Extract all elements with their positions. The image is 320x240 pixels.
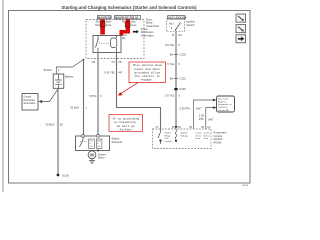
svg-text:99073: 99073 [242, 185, 249, 187]
grommet P100 [174, 88, 178, 91]
svg-text:C8: C8 [92, 60, 96, 64]
svg-text:Starting and Charging Schemati: Starting and Charging Schematics (Starte… [61, 5, 197, 10]
svg-text:Strtr: Strtr [95, 24, 100, 27]
svg-text:P100: P100 [180, 87, 187, 91]
svg-text:0.35 PPL: 0.35 PPL [179, 106, 191, 110]
svg-text:Crank: Crank [204, 132, 211, 135]
svg-text:Coil: Coil [97, 146, 101, 148]
svg-text:Control: Control [214, 134, 223, 138]
svg-text:Underhood: Underhood [146, 24, 159, 28]
fuse F2 / ignition feed (highlighted red elbow) [120, 20, 131, 36]
svg-text:Distribution: Distribution [24, 99, 36, 102]
svg-text:1: 1 [86, 105, 88, 109]
svg-text:is happening.: is happening. [114, 120, 138, 124]
svg-text:50 BLK: 50 BLK [43, 68, 52, 72]
svg-text:C8: C8 [118, 60, 122, 64]
wire: battery negative to ground G100 [57, 89, 59, 176]
ground distribution reference box [22, 94, 38, 111]
svg-text:Ignition: Ignition [181, 132, 189, 135]
svg-text:B: B [172, 33, 174, 37]
svg-text:Control: Control [165, 140, 173, 143]
wire: relay switch output to solenoid [97, 53, 99, 135]
svg-text:5: 5 [179, 43, 181, 47]
svg-text:C202: C202 [180, 52, 187, 56]
svg-text:Schematics in: Schematics in [218, 103, 232, 106]
svg-text:Motor: Motor [98, 156, 105, 160]
svg-text:21: 21 [172, 126, 175, 129]
svg-text:Relay: Relay [165, 135, 171, 137]
svg-text:Schematics: Schematics [24, 102, 37, 105]
svg-text:1467: 1467 [208, 118, 214, 122]
wire: ignition switch to PCM pin 21 (crank signal) [175, 32, 177, 127]
red arrow 1 [118, 83, 138, 96]
wire: relay coil to PCM pin 74 (447) [117, 53, 161, 130]
svg-text:Module: Module [214, 137, 223, 141]
svg-text:C101: C101 [180, 77, 187, 81]
PCM driver symbol (starter relay coil control) [158, 129, 162, 144]
svg-text:D7: D7 [112, 60, 116, 64]
svg-text:0.35: 0.35 [199, 114, 205, 118]
svg-text:74: 74 [155, 126, 158, 129]
svg-text:Cell 20 of: Cell 20 of [218, 107, 228, 109]
main border frame [9, 11, 251, 184]
svg-text:Rly: Rly [122, 37, 126, 40]
svg-text:32 BLK: 32 BLK [46, 123, 55, 127]
svg-text:Coil: Coil [165, 138, 169, 140]
wire: battery negative to ground ref (arrow) [42, 88, 59, 101]
svg-text:TB: TB [122, 21, 126, 24]
svg-text:1467: 1467 [196, 106, 202, 110]
wire: PCM pin 56 to reference box (arrow) [194, 100, 214, 129]
svg-text:0.5 YEL: 0.5 YEL [165, 43, 175, 47]
fuse block (underhood) dashed box [86, 20, 144, 59]
svg-text:MAXIFUSE RELAY: MAXIFUSE RELAY [115, 16, 139, 20]
PCM entry arrowhead [174, 126, 177, 129]
page edge line [2, 0, 4, 192]
svg-text:Battery: Battery [65, 75, 74, 79]
svg-text:447: 447 [118, 71, 123, 75]
svg-text:PPL: PPL [199, 117, 205, 121]
svg-text:32 BLK: 32 BLK [70, 105, 79, 109]
svg-text:ACC LOCK ON: ACC LOCK ON [168, 16, 186, 20]
svg-text:Section 8A: Section 8A [218, 109, 229, 112]
reference box (see other schematic) [217, 96, 235, 112]
svg-text:Data: Data [196, 137, 201, 140]
svg-text:5 PPL: 5 PPL [89, 94, 97, 98]
svg-text:B4: B4 [170, 52, 174, 56]
starter solenoid box [76, 135, 110, 152]
svg-text:If no grounding: If no grounding [112, 116, 139, 120]
svg-text:Data: Data [204, 137, 209, 140]
ground G100 [57, 174, 60, 177]
starter motor M [88, 151, 96, 159]
red note box 1 [129, 62, 166, 83]
svg-text:C2: C2 [178, 126, 182, 129]
connector C101 [174, 78, 178, 80]
svg-text:Run: Run [169, 23, 174, 26]
PCM ignition voltage sensor symbol [175, 130, 177, 142]
red note box 2 [109, 115, 143, 132]
svg-text:Fuse: Fuse [131, 24, 137, 27]
fuse F1 (highlighted red) [100, 20, 105, 35]
svg-text:Fuse: Fuse [106, 24, 112, 27]
svg-text:G100: G100 [62, 174, 69, 178]
svg-text:.5 YEL: .5 YEL [166, 62, 175, 66]
fuse block top connector tab A [98, 16, 113, 20]
svg-text:See Crank: See Crank [218, 98, 229, 101]
battery junction node [83, 59, 85, 61]
svg-text:0.35 YEL: 0.35 YEL [104, 71, 116, 75]
svg-text:56: 56 [201, 126, 204, 129]
wire: reference box to PCM pin 56 C2 [206, 108, 217, 129]
svg-text:Crank: Crank [196, 132, 203, 135]
wire: battery positive cable to solenoid B [83, 60, 85, 135]
svg-text:engage.: engage. [141, 77, 154, 81]
ground under starter motor [89, 159, 95, 164]
svg-text:(PCM): (PCM) [214, 141, 222, 145]
svg-text:0.5 YEL: 0.5 YEL [165, 94, 175, 98]
battery [53, 74, 64, 88]
arrow to power distribution note [133, 30, 139, 34]
svg-text:6: 6 [100, 94, 102, 98]
fuse block top connector tab B [115, 16, 141, 20]
svg-text:further: further [119, 128, 132, 132]
toolbar button 1 [236, 14, 246, 22]
svg-text:1: 1 [58, 68, 60, 72]
svg-text:Powertrain: Powertrain [214, 130, 227, 134]
svg-text:Voltage: Voltage [181, 134, 189, 137]
svg-text:Request: Request [218, 100, 227, 103]
svg-text:B4: B4 [170, 77, 174, 81]
wire: battery positive to junction [56, 60, 83, 75]
svg-text:Schematics: Schematics [141, 34, 155, 37]
svg-text:5: 5 [179, 62, 181, 66]
svg-text:50: 50 [60, 123, 63, 127]
connector C202 [174, 53, 178, 55]
svg-text:we will go: we will go [117, 124, 135, 128]
toolbar button 3 [236, 35, 246, 43]
svg-text:Servo: Servo [196, 134, 202, 137]
PCM dashed box [153, 129, 212, 149]
svg-text:Solenoid: Solenoid [112, 140, 123, 144]
svg-text:C2: C2 [207, 126, 211, 129]
svg-text:Ground: Ground [24, 96, 32, 99]
svg-text:Starter: Starter [165, 132, 172, 135]
svg-text:Sense: Sense [204, 135, 211, 137]
svg-text:M: M [90, 153, 94, 158]
toolbar button 2 [236, 25, 246, 33]
ignition switch dashed box [167, 16, 187, 32]
svg-text:MAXIFUSE: MAXIFUSE [98, 16, 112, 20]
svg-text:Coil: Coil [89, 146, 93, 148]
starter relay K1 [93, 36, 121, 53]
svg-text:56: 56 [189, 126, 192, 129]
svg-text:G2: G2 [178, 33, 182, 37]
svg-text:5: 5 [179, 94, 181, 98]
svg-text:Switch: Switch [187, 23, 195, 27]
